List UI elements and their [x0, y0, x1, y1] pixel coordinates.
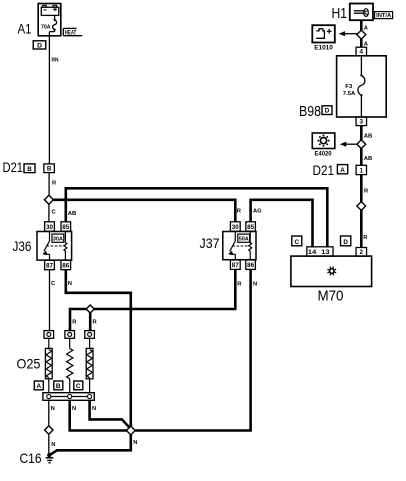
svg-text:N: N	[92, 406, 96, 412]
svg-text:7.5A: 7.5A	[343, 91, 356, 97]
svg-text:INT/A: INT/A	[376, 13, 391, 19]
svg-text:B98: B98	[299, 104, 321, 120]
svg-text:85: 85	[247, 224, 255, 231]
svg-text:E1010: E1010	[314, 44, 333, 51]
svg-text:86: 86	[62, 263, 70, 270]
svg-text:86: 86	[247, 262, 255, 269]
svg-text:AB: AB	[364, 133, 373, 139]
svg-text:3: 3	[360, 118, 364, 125]
svg-text:70A: 70A	[41, 25, 51, 31]
svg-text:H1: H1	[332, 6, 348, 22]
svg-text:N: N	[51, 406, 55, 412]
svg-text:A1: A1	[18, 21, 32, 37]
svg-text:A: A	[36, 383, 41, 390]
svg-text:N: N	[72, 406, 76, 412]
svg-text:N: N	[68, 281, 72, 287]
svg-text:D: D	[325, 108, 330, 115]
svg-text:30: 30	[46, 224, 54, 231]
svg-text:C: C	[76, 383, 81, 390]
svg-text:85: 85	[62, 224, 70, 231]
svg-text:O25: O25	[17, 356, 41, 372]
svg-text:D21: D21	[3, 160, 24, 175]
svg-text:AG: AG	[253, 209, 262, 215]
svg-text:RN: RN	[52, 58, 59, 64]
svg-text:N: N	[253, 281, 257, 287]
svg-text:N: N	[133, 440, 137, 446]
svg-text:14: 14	[308, 249, 317, 256]
svg-text:B: B	[27, 166, 32, 173]
svg-text:D: D	[37, 42, 42, 49]
svg-text:AB: AB	[364, 156, 373, 162]
svg-text:13: 13	[321, 249, 330, 256]
svg-text:F3: F3	[345, 84, 353, 90]
svg-text:M70: M70	[318, 288, 344, 305]
svg-text:E4020: E4020	[315, 151, 332, 158]
svg-text:AB: AB	[68, 211, 77, 217]
svg-text:C: C	[295, 239, 300, 246]
svg-text:D21: D21	[313, 162, 335, 178]
svg-text:4: 4	[360, 49, 364, 56]
svg-text:D: D	[343, 239, 348, 246]
svg-text:87: 87	[232, 262, 240, 269]
svg-text:2: 2	[360, 249, 364, 256]
svg-text:1: 1	[360, 167, 364, 174]
svg-text:C16: C16	[20, 450, 42, 466]
svg-text:J37: J37	[200, 236, 220, 251]
svg-text:B: B	[56, 383, 61, 390]
svg-text:30: 30	[232, 224, 240, 231]
svg-text:N: N	[51, 442, 55, 448]
svg-text:87: 87	[46, 263, 54, 270]
svg-text:A: A	[340, 167, 345, 174]
svg-text:J36: J36	[13, 239, 32, 254]
svg-text:30A: 30A	[53, 237, 64, 243]
svg-text:50A: 50A	[239, 237, 250, 243]
svg-text:B: B	[47, 165, 52, 172]
svg-text:HEAT: HEAT	[65, 30, 77, 37]
